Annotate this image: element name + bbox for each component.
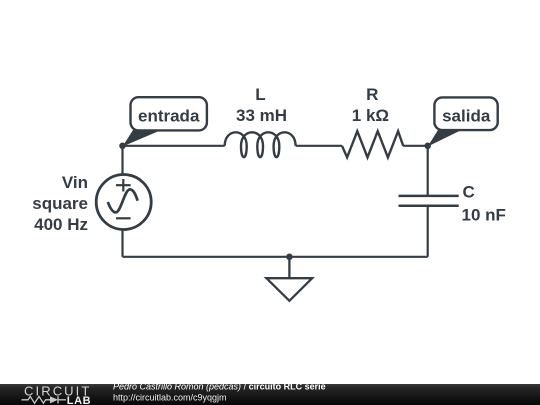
resistor R zigzag [342, 131, 403, 157]
svg-text:33 mH: 33 mH [236, 106, 287, 125]
footer logo circuit glyph [22, 396, 67, 403]
flag salida tail [428, 129, 463, 146]
wire bottom rail [123, 256, 428, 258]
svg-text:Vin: Vin [62, 173, 88, 192]
inductor L coil [225, 132, 296, 157]
svg-text:400 Hz: 400 Hz [34, 215, 88, 234]
flag entrada bubble [131, 97, 207, 130]
svg-text:L: L [255, 85, 265, 104]
footer logo diode triangle [50, 396, 58, 403]
junction node ground [286, 253, 293, 260]
svg-text:square: square [32, 194, 88, 213]
footer bar [0, 384, 540, 405]
voltage source Vin plus sign [116, 179, 131, 192]
svg-text:C: C [463, 183, 475, 202]
voltage source Vin sine wave [108, 189, 138, 212]
wire inductor to resistor [296, 145, 342, 147]
wire capacitor top to node salida [427, 146, 429, 196]
flag salida bubble [434, 97, 497, 130]
svg-text:Pedro Castrillo Romon (pedcas): Pedro Castrillo Romon (pedcas) / circuit… [113, 382, 326, 392]
wire source Vin bottom to bottom rail [121, 230, 123, 257]
flag entrada tail [123, 129, 164, 146]
wire top-left: node entrada to inductor [123, 145, 225, 147]
wire right vertical: bottom rail to capacitor [427, 206, 429, 257]
junction node entrada [119, 143, 126, 150]
svg-text:LAB: LAB [67, 395, 91, 405]
wire resistor to node salida [403, 145, 428, 147]
junction node salida [424, 143, 431, 150]
voltage source Vin minus sign [116, 217, 131, 219]
capacitor C plates [399, 196, 459, 206]
svg-text:R: R [366, 85, 378, 104]
svg-text:salida: salida [442, 107, 491, 126]
ground symbol [266, 257, 312, 301]
wire left vertical: node entrada to source Vin top [121, 146, 123, 175]
voltage source Vin circle [96, 175, 151, 230]
svg-text:1 kΩ: 1 kΩ [352, 106, 389, 125]
svg-text:http://circuitlab.com/c9yqgjm: http://circuitlab.com/c9yqgjm [113, 393, 227, 403]
svg-text:entrada: entrada [138, 107, 200, 126]
svg-text:10 nF: 10 nF [462, 206, 506, 225]
